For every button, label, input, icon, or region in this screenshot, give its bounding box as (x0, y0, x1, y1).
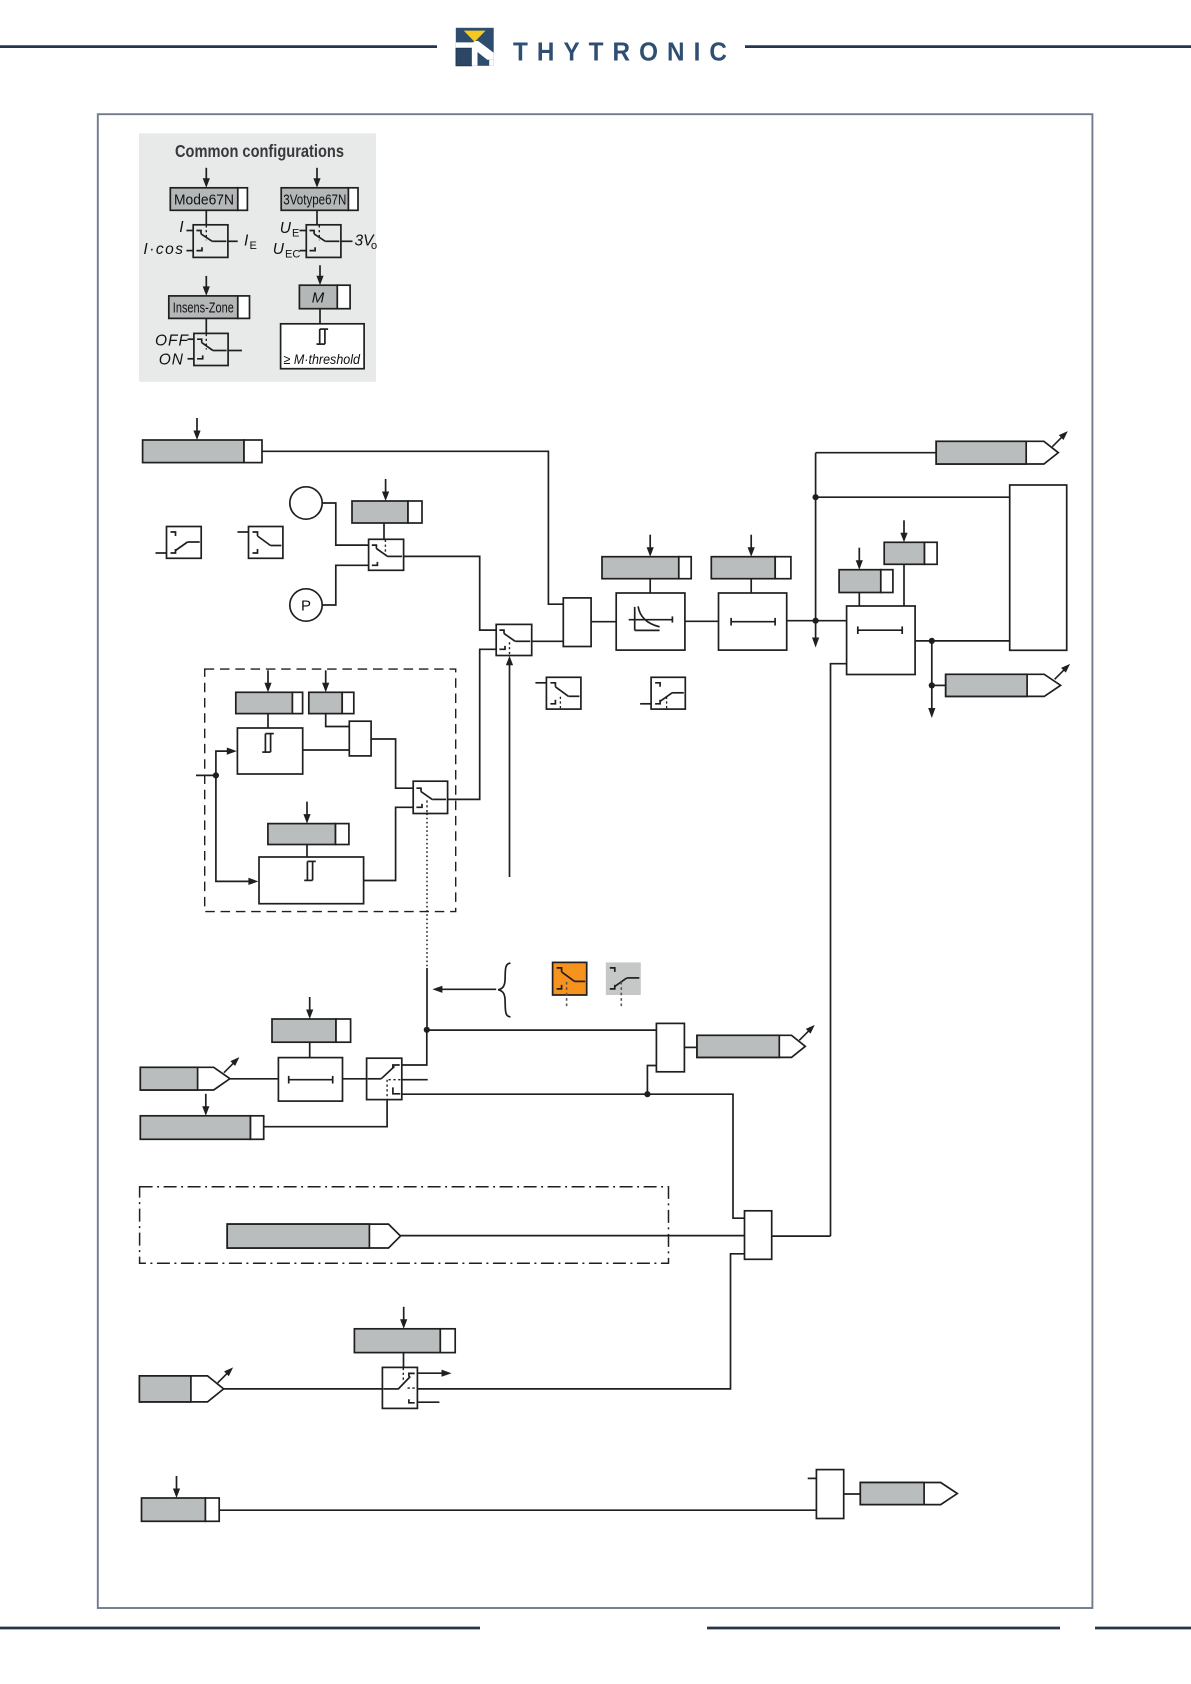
header rule left (0, 45, 437, 48)
main definite-time block DT2 (847, 606, 916, 675)
svg-text:ON: ON (159, 352, 184, 369)
wire I-cos input (186, 250, 193, 252)
or gate OR4 (816, 1470, 843, 1519)
internal flag (227, 1224, 400, 1248)
arrow into Insens-Zone (205, 276, 207, 288)
output flag OUT4 (860, 1483, 957, 1505)
wire B3 down (649, 579, 651, 593)
junction J2 (813, 494, 819, 500)
output flag OUT2 (946, 674, 1061, 696)
svg-text:P: P (301, 598, 311, 615)
setting bar B6 (884, 542, 924, 564)
svg-text:I: I (179, 219, 184, 236)
diagram frame (98, 114, 1093, 1608)
wire B12 to SW5 (403, 1353, 405, 1368)
wire B5 down (858, 593, 860, 607)
3Votype67N setting box (281, 188, 348, 211)
wire DT2 out (915, 640, 1010, 642)
wire B8 to OR1a (326, 714, 350, 727)
vertical bus from output (815, 453, 817, 621)
wire SW2 to OR1 (532, 640, 564, 642)
wire H1 to OR1a (303, 749, 350, 751)
wire J4 to OUT2 (932, 684, 946, 686)
wire to OR2 (427, 1029, 657, 1031)
wire B10 down (309, 1042, 311, 1057)
or gate OR3 (745, 1211, 772, 1260)
wire B11 to SW4 (264, 1100, 387, 1127)
Insens-Zone setting box (169, 296, 238, 319)
wire 3Vo output (341, 240, 353, 242)
wire 3Votype67N to switch (316, 210, 318, 225)
gray timing icon (606, 962, 641, 995)
3Vo selector switch (306, 225, 341, 258)
timing icon fall legend (249, 527, 283, 559)
output flag OUT1 (936, 441, 1058, 464)
wire SW4 upper out (402, 1030, 427, 1065)
svg-text:M: M (312, 290, 325, 307)
svg-text:≥ M·threshold: ≥ M·threshold (284, 352, 361, 367)
wire Insens output (228, 350, 242, 352)
setting bar B11 (140, 1116, 250, 1140)
svg-text:I: I (244, 233, 249, 250)
switch SW2 (496, 624, 532, 655)
wire B4 down (750, 579, 752, 593)
footer rule 2 (707, 1627, 1060, 1630)
wire I input (186, 230, 193, 232)
footer rule 3 (1095, 1627, 1191, 1630)
wire SW5 to OR3 (417, 1254, 744, 1389)
Insens selector switch (194, 333, 228, 365)
definite-time block DT3 (278, 1058, 342, 1102)
wire ON input (188, 358, 194, 360)
svg-text:E: E (250, 240, 257, 252)
wire UEC input (300, 250, 307, 252)
circle node (290, 487, 322, 519)
orange timing icon (553, 962, 587, 995)
arrow out SW5 top (417, 1372, 443, 1374)
wire H2 to SW3 (364, 807, 414, 880)
wire B1 to OR1 (262, 451, 563, 604)
wire OR4 to OUT4 (844, 1493, 861, 1495)
setting bar B8 (309, 692, 342, 713)
setting bar B3 (602, 557, 679, 579)
wire OR1a to SW3 (371, 739, 413, 788)
wire J3 down (931, 641, 933, 686)
input stub into group (196, 774, 216, 776)
M setting box (299, 285, 337, 309)
stub SW5 bottom (417, 1401, 439, 1403)
wire OFF input (188, 338, 194, 340)
wire J5 to hysteresis2 (216, 775, 249, 881)
arrow pointing to control line (441, 988, 496, 990)
wire OR1 to inverse block (591, 621, 616, 623)
wire P to SW1 (322, 565, 368, 605)
Thytronic logo (456, 28, 494, 66)
wire SW4 lower out (402, 1094, 745, 1218)
footer rule 1 (0, 1627, 480, 1630)
header rule right (745, 45, 1191, 48)
output flag OUT3 (697, 1035, 805, 1057)
setting bar B2 (352, 501, 408, 523)
junction J1 (813, 618, 819, 624)
output matrix block (1010, 485, 1067, 650)
circle node P (290, 589, 322, 621)
svg-text:THYTRONIC: THYTRONIC (513, 39, 736, 67)
wire J7 to OR2 (647, 1066, 656, 1095)
wire IE output (228, 240, 238, 242)
Mode67N selector switch (193, 225, 228, 258)
timing icon rise dashed (651, 677, 685, 709)
Mode67N setting box (170, 188, 238, 211)
timing icon fall dashed (546, 677, 581, 709)
definite-time block DT1 (719, 593, 787, 650)
wire UE input (300, 230, 307, 232)
wire J2 to matrix (816, 496, 1010, 498)
or gate OR2 (656, 1023, 684, 1071)
inhibit wire from OR3 (831, 664, 847, 1236)
wire circle to SW1 (322, 503, 368, 545)
wire SW3 to SW2 (448, 649, 497, 799)
stub OR4 top (808, 1477, 817, 1479)
svg-text:U: U (280, 220, 292, 237)
junction J5 (213, 772, 219, 778)
wire DT3 to SW4 (343, 1078, 367, 1080)
switch SW4 (367, 1058, 402, 1099)
svg-text:OFF: OFF (155, 333, 190, 350)
junction J3 (929, 638, 935, 644)
setting bar B7 (236, 692, 293, 713)
wire J5 to hysteresis1 (216, 751, 227, 775)
wire B7 down (267, 714, 269, 728)
setting bar B13 (142, 1498, 206, 1521)
svg-text:Common configurations: Common configurations (175, 141, 344, 161)
svg-text:I·cos: I·cos (143, 241, 184, 258)
wire SW1 to SW2 (404, 556, 497, 630)
timing icon rise legend (167, 527, 202, 559)
switch SW1 (369, 539, 404, 570)
inverse-time block (616, 593, 685, 650)
arrow into Mode67N (205, 168, 207, 180)
setting bar B1 (143, 440, 244, 463)
svg-text:U: U (273, 241, 285, 258)
wire IN2 to SW5 (224, 1388, 383, 1390)
arrow into M box (319, 265, 321, 277)
wire to output flag OUT1 (816, 452, 937, 454)
svg-text:Mode67N: Mode67N (174, 193, 234, 209)
svg-text:3Votype67N: 3Votype67N (283, 193, 346, 209)
M-threshold block (281, 324, 365, 369)
svg-text:o: o (371, 240, 377, 252)
arrow up into SW2 (509, 665, 511, 878)
svg-text:Insens-Zone: Insens-Zone (173, 301, 234, 317)
wire B13 to OR4 (219, 1509, 816, 1511)
wire inverse to def-time (685, 620, 719, 622)
or gate OR1 (563, 598, 591, 647)
svg-text:E: E (292, 228, 299, 240)
setting bar B9 (268, 824, 336, 845)
arrow into 3Votype67N (316, 168, 318, 180)
wire OR2 to OUT3 (684, 1046, 697, 1048)
dashed group box (205, 669, 456, 912)
wire IN1 to DT3 (230, 1078, 279, 1080)
hysteresis block H2 (259, 857, 364, 904)
wire Insens-Zone to switch (205, 318, 207, 333)
or gate OR1a (349, 721, 371, 756)
setting bar B12 (354, 1329, 440, 1353)
junction J4 (929, 682, 935, 688)
hysteresis block H1 (237, 728, 302, 774)
wire DT1 to main block (787, 620, 847, 622)
dash-dot group box (140, 1187, 669, 1264)
wire flag to OR3 (401, 1235, 745, 1237)
switch SW5 (382, 1367, 417, 1408)
common configurations panel (139, 133, 376, 381)
switch SW3 (413, 781, 447, 813)
dotted control line (426, 814, 428, 969)
stub SW4 right (402, 1079, 428, 1081)
setting bar B5 (839, 570, 881, 593)
wire B6 down (903, 564, 905, 606)
wire M to threshold block (319, 309, 321, 324)
setting bar B4 (711, 557, 775, 579)
wire OR3 output (772, 1235, 831, 1237)
brace (498, 963, 510, 1017)
svg-text:EC: EC (285, 249, 300, 261)
wire B2 to SW1 (383, 523, 385, 539)
input flag IN2 (139, 1376, 223, 1402)
setting bar B10 (272, 1019, 336, 1042)
junction J7 (644, 1091, 650, 1097)
wire Mode67N to switch (205, 210, 207, 225)
dangling arrow below J4 (931, 685, 933, 709)
input flag IN1 (140, 1067, 230, 1090)
wire B9 down (306, 845, 308, 858)
junction J6 (424, 1027, 430, 1033)
